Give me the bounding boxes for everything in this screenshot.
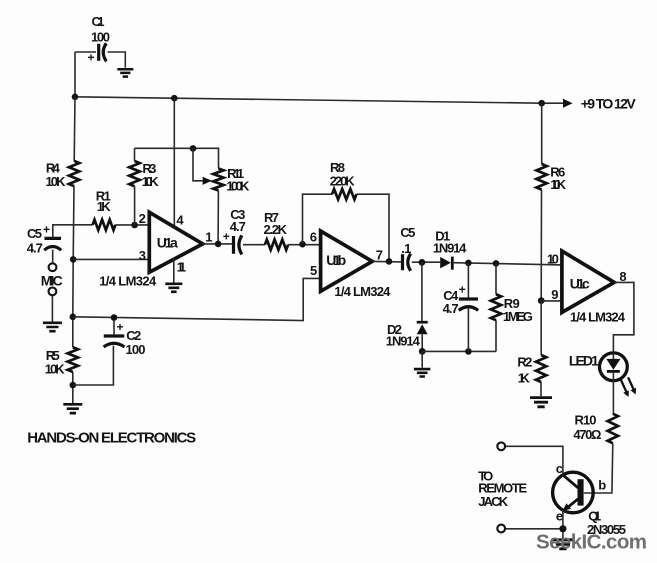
svg-text:U1c: U1c [570,275,590,291]
resistor R10 [573,413,618,444]
svg-text:9: 9 [551,287,558,302]
svg-text:100: 100 [91,30,110,45]
node C2 top junction [111,314,118,321]
svg-text:4: 4 [176,212,184,227]
wire D1 to pin10 [452,263,562,265]
resistor R7 [264,210,289,250]
jack terminal top [497,442,505,450]
svg-text:SeekIC.com: SeekIC.com [536,531,647,554]
resistor R3 [129,148,159,225]
svg-text:1/4 LM324: 1/4 LM324 [570,309,626,324]
svg-text:JACK: JACK [478,494,509,509]
wire collector to jack [505,446,563,475]
svg-text:10K: 10K [142,174,160,189]
svg-text:+: + [88,51,95,65]
ground [117,69,133,76]
wire left rail [73,97,75,403]
label TO REMOTE JACK [478,468,527,509]
node pin7 junction [386,258,393,265]
node pin2 junction [131,222,138,229]
node R9 junction [493,260,500,267]
ground below R5 [63,404,82,413]
capacitor C4 [443,263,479,352]
svg-text:100K: 100K [226,179,250,194]
wire pin5 bias [73,278,321,320]
op-amp U1c [547,251,627,312]
resistor R4 [46,161,80,189]
svg-text:6: 6 [310,229,317,244]
svg-text:.1: .1 [401,241,411,256]
wire [75,51,96,53]
svg-text:3: 3 [139,248,146,263]
svg-text:2.2K: 2.2K [264,222,288,237]
node bus-left junction [72,94,79,101]
node R5-C2 junction [70,382,77,389]
svg-text:HANDS-ON ELECTRONICS: HANDS-ON ELECTRONICS [27,430,196,447]
wire R1 to pin2 [115,224,149,226]
wire C5 top to R1 [53,225,93,237]
jack terminal bottom [497,525,505,533]
svg-text:U1a: U1a [157,234,178,250]
resistor R5 [45,347,78,376]
svg-text:R2: R2 [517,355,532,370]
wire pin3 [73,258,149,260]
resistor R2 [517,301,546,397]
node C4 junction [465,260,472,267]
svg-text:470Ω: 470Ω [573,427,601,442]
svg-text:1N914: 1N914 [386,334,421,349]
capacitor C2 [73,318,146,386]
wire pin4 from bus [173,98,175,227]
MIC terminal bottom [49,288,57,296]
ground below MIC [43,323,62,331]
svg-text:10: 10 [547,251,559,266]
svg-text:1MEG: 1MEG [503,309,533,324]
capacitor C1 [88,14,111,64]
svg-text:10K: 10K [46,174,67,189]
capacitor C3 [223,207,246,254]
svg-text:U1b: U1b [326,252,346,268]
svg-text:220K: 220K [330,174,356,189]
svg-text:b: b [598,478,606,493]
node wiper junction [190,145,197,152]
svg-text:1/4 LM324: 1/4 LM324 [99,274,157,289]
svg-text:c: c [556,461,563,476]
wire pin7 out [372,260,401,263]
svg-text:10K: 10K [45,362,66,377]
svg-text:4.7: 4.7 [230,219,246,234]
svg-text:1N914: 1N914 [433,241,467,256]
svg-text:10K: 10K [550,177,567,192]
svg-text:C5: C5 [27,226,42,241]
svg-text:2: 2 [139,211,146,226]
wire R7 to pin6 [288,244,321,246]
node rail-bias junction [70,314,77,321]
svg-text:R10: R10 [575,413,597,428]
node pin9 junction [538,297,545,304]
svg-text:C2: C2 [126,328,141,343]
svg-text:LED1: LED1 [569,353,599,369]
resistor R8 [303,160,390,262]
ground below Q1 emitter [552,540,574,549]
node emitter junction [559,525,566,532]
resistor R1 [93,189,116,230]
op-amp U1b [310,229,383,291]
wire pin11 [173,259,175,283]
node bus-pin4 junction [171,95,178,102]
wire C5 bottom to MIC [52,250,54,264]
svg-text:7: 7 [376,247,383,262]
wire pin1 out [203,243,232,245]
svg-text:1K: 1K [518,370,531,385]
wire supply bus [75,52,564,103]
resistor R9 [491,263,533,351]
+9 TO 12V supply arrow [563,96,636,112]
svg-text:C5: C5 [400,225,415,240]
potentiometer R11 [193,148,250,244]
wire pin9 [541,300,562,302]
wire feedback top [135,148,219,168]
wire MIC to ground [51,295,53,321]
node pin6 junction [299,241,306,248]
wire C5 to D1 [412,261,440,263]
node D2 branch junction [419,259,426,266]
wire R10 to base [584,443,613,493]
node pin1 junction [215,241,222,248]
svg-text:1K: 1K [97,199,112,214]
resistor R6 [536,103,566,300]
ground pin11 [165,284,182,292]
svg-text:+: + [117,320,124,334]
svg-text:+: + [459,283,466,297]
ground below R2 [530,398,552,407]
LED1 [569,353,636,398]
svg-text:4.7: 4.7 [27,241,43,256]
node C4 bottom junction [465,348,472,355]
node rail-pin3 junction [70,256,77,263]
svg-text:1: 1 [205,229,212,244]
svg-text:e: e [556,508,563,523]
wire LED to R10 [612,381,614,414]
wire C3 to R7 [243,244,265,246]
diode D1 1N914 [433,228,467,269]
ground below D2 [414,369,431,376]
node D2-ground junction [419,348,426,355]
svg-text:100: 100 [126,342,146,357]
svg-text:MIC: MIC [41,273,63,289]
svg-text:11: 11 [177,260,187,275]
transistor Q1 2N3055 [553,461,626,537]
svg-text:C1: C1 [92,14,105,29]
wire [108,52,126,68]
svg-text:5: 5 [310,263,317,278]
svg-text:4.7: 4.7 [443,301,459,316]
node bus-R6 junction [538,100,545,107]
op-amp U1a [139,211,213,275]
diode D2 1N914 [386,262,428,351]
capacitor C5 input [27,222,61,255]
MIC terminal top [49,263,57,271]
capacitor C5 (.1) [400,225,415,271]
wire bottom rail [422,351,496,367]
wire pin8 out [613,282,634,353]
svg-text:+9 TO 12V: +9 TO 12V [581,96,637,112]
svg-text:1/4 LM324: 1/4 LM324 [334,284,391,299]
svg-text:+: + [223,229,230,243]
svg-text:+: + [43,222,50,236]
wire emitter to jack [505,510,563,539]
